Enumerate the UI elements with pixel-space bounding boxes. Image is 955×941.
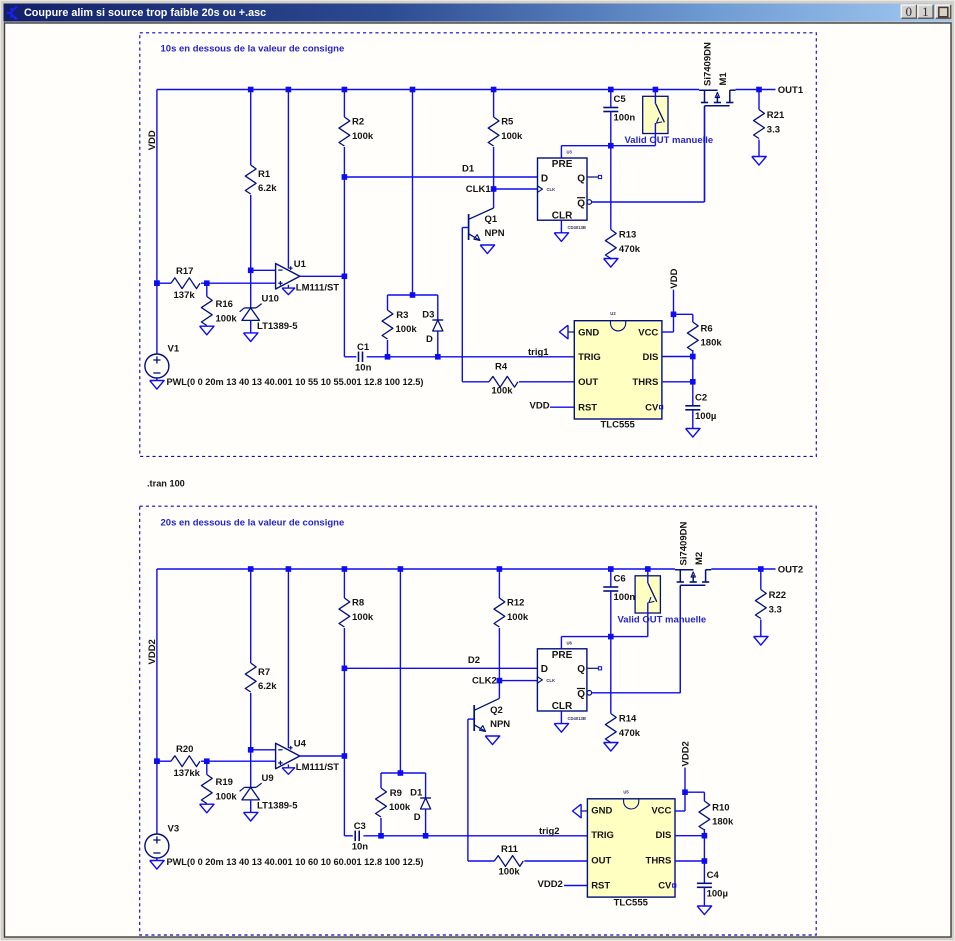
svg-text:U2: U2 <box>610 311 616 316</box>
svg-text:180k: 180k <box>712 817 734 828</box>
wire left rail vertical (VDD) <box>156 90 158 355</box>
ground flag opamp <box>282 288 295 295</box>
node junction CLK2 net <box>497 678 503 684</box>
wire RST <box>550 406 574 408</box>
svg-text:10n: 10n <box>352 842 369 853</box>
svg-text:OUT2: OUT2 <box>778 564 803 575</box>
wire 555 DIS <box>662 356 693 358</box>
voltage source V3 <box>156 833 158 835</box>
node junction R2-D1 <box>342 174 348 180</box>
floating pin marker Q <box>598 175 601 178</box>
node junction rail-R17 lower <box>154 280 160 286</box>
svg-text:D1: D1 <box>410 788 423 799</box>
svg-text:C1: C1 <box>357 342 370 353</box>
svg-text:Si7409DN: Si7409DN <box>679 522 690 566</box>
node junction rail-switch <box>653 87 659 93</box>
svg-text:U10: U10 <box>262 294 279 305</box>
wire VDD power flag <box>673 290 675 315</box>
node junction C3-R9 <box>378 833 384 839</box>
wire CLK1 to flip-flop <box>494 188 538 190</box>
resistor R13 470k (Qbar pulldown) <box>610 146 612 230</box>
svg-text:R14: R14 <box>619 714 637 725</box>
node junction OUT2-R22 <box>758 566 764 572</box>
ground flag Q1 emitter <box>480 245 494 254</box>
node junction rail-R17 <box>154 280 160 286</box>
svg-text:D2: D2 <box>468 655 480 666</box>
diode D3 <box>437 295 439 320</box>
capacitor C4 100µ <box>703 861 705 883</box>
voltage reference U10 LT1389-5 <box>244 307 256 309</box>
svg-text:THRS: THRS <box>632 377 658 388</box>
svg-text:OUT1: OUT1 <box>778 85 804 96</box>
node junction rail-C6 <box>608 566 614 572</box>
ground flag R22 <box>754 637 768 646</box>
svg-text:CLR: CLR <box>552 210 573 221</box>
flip-flop U3 CD4013B <box>538 158 588 220</box>
resistor R20 137kk (series) <box>157 760 171 762</box>
node junction rail-R3/D3 <box>410 87 416 93</box>
wire opamp output <box>300 755 345 757</box>
node junction rail-R5 <box>491 87 497 93</box>
svg-text:D3: D3 <box>422 310 434 321</box>
ground flag R19 <box>200 804 214 813</box>
wire base down to R11 <box>467 719 469 861</box>
transistor Q2 NPN <box>498 681 500 699</box>
svg-text:DIS: DIS <box>642 352 658 363</box>
ground flag R13 <box>604 259 618 268</box>
svg-text:Valid OUT manuelle: Valid OUT manuelle <box>618 615 707 626</box>
node junction PRE-C5 <box>608 143 614 149</box>
capacitor C2 100µ <box>692 382 694 406</box>
node junction DIS-R6 <box>690 354 696 360</box>
wire output junction down to C3 <box>343 756 345 836</box>
ground flag R14 <box>604 743 618 752</box>
floating pin marker CV <box>660 406 663 409</box>
svg-text:D: D <box>541 664 548 675</box>
svg-text:DIS: DIS <box>656 830 672 841</box>
svg-text:10s en dessous de la valeur de: 10s en dessous de la valeur de consigne <box>161 44 345 55</box>
wire 555 THRS <box>662 381 693 383</box>
wire plus input <box>207 760 276 762</box>
svg-text:VDD2: VDD2 <box>538 879 563 890</box>
wire 555 GND pin <box>568 331 574 333</box>
svg-text:100µ: 100µ <box>707 889 728 900</box>
svg-text:U1: U1 <box>294 259 307 270</box>
svg-text:C4: C4 <box>707 870 720 881</box>
svg-text:trig2: trig2 <box>539 826 560 837</box>
wire trig2 net <box>363 835 587 837</box>
node junction rail-R8 <box>342 566 348 572</box>
svg-text:20s en dessous de la valeur de: 20s en dessous de la valeur de consigne <box>161 518 345 529</box>
svg-text:NPN: NPN <box>485 228 505 239</box>
capacitor C5 100n <box>610 90 612 108</box>
wire flip-flop PRE <box>560 637 562 649</box>
svg-text:TLC555: TLC555 <box>601 420 636 431</box>
ground flag V3 <box>150 861 164 870</box>
svg-text:R20: R20 <box>176 744 193 755</box>
svg-text:CLK: CLK <box>547 187 556 192</box>
MOSFET M2 Si7409DN <box>675 569 694 571</box>
node junction D3-trig1 <box>435 354 441 360</box>
svg-text:Valid OUT manuelle: Valid OUT manuelle <box>625 135 714 146</box>
resistor R17 137k (series) <box>157 282 171 284</box>
wire Q2 base <box>468 718 474 720</box>
resistor R8 100k (pull-up) <box>343 569 345 598</box>
transistor Q1 NPN <box>493 189 495 208</box>
svg-text:10n: 10n <box>355 363 372 374</box>
wire minus input <box>251 269 276 271</box>
svg-text:R8: R8 <box>352 598 364 609</box>
svg-text:THRS: THRS <box>646 855 672 866</box>
voltage source V1 <box>156 353 158 355</box>
svg-text:PWL(0 0 20m 13 40 13 40.001 10: PWL(0 0 20m 13 40 13 40.001 10 60 10 60.… <box>167 857 424 867</box>
svg-text:3.3: 3.3 <box>769 605 782 616</box>
svg-text:U6: U6 <box>567 640 573 645</box>
svg-text:V1: V1 <box>168 344 180 355</box>
svg-text:R3: R3 <box>396 310 408 321</box>
node junction rail-R7 <box>248 566 254 572</box>
svg-text:CLR: CLR <box>552 701 573 712</box>
wire rail down to loop <box>412 90 414 296</box>
wire R8 down to output junction <box>343 668 345 756</box>
node junction THRS-C4 <box>702 858 708 864</box>
wire VDD rail block1 <box>157 89 699 91</box>
svg-text:RST: RST <box>591 881 610 892</box>
timer U2 TLC555 <box>574 321 662 419</box>
ground flag CLR <box>554 724 568 733</box>
svg-text:C6: C6 <box>614 574 626 585</box>
wire opamp V+ supply <box>287 569 289 748</box>
resistor R4 100k (to 555 OUT) <box>462 381 489 383</box>
svg-text:GND: GND <box>591 805 612 816</box>
svg-text:Q1: Q1 <box>485 214 498 225</box>
svg-text:C5: C5 <box>614 94 627 105</box>
wire CLK2 to flip-flop <box>499 680 537 682</box>
flip-flop Qbar bubble <box>587 691 592 696</box>
switch Valid OUT manuelle <box>635 576 660 613</box>
svg-text:CD4013B: CD4013B <box>568 716 586 721</box>
app icon transistor <box>7 7 17 19</box>
ground flag C2 <box>686 429 700 438</box>
dashed box block 1 <box>140 33 817 457</box>
wire trig1 net <box>367 356 575 358</box>
svg-text:6.2k: 6.2k <box>258 681 277 692</box>
wire RST <box>564 885 587 887</box>
svg-text:LM111/ST: LM111/ST <box>296 762 339 773</box>
svg-text:0: 0 <box>906 4 913 19</box>
svg-text:LT1389-5: LT1389-5 <box>257 801 298 812</box>
op-amp U4 LM111/ST <box>276 743 300 769</box>
node junction R7-minus <box>248 747 254 753</box>
resistor R7 6.2k <box>250 569 252 663</box>
wire Q1 base <box>462 227 468 229</box>
svg-text:VDD: VDD <box>530 401 550 412</box>
capacitor C3 10n <box>354 831 356 842</box>
svg-text:100k: 100k <box>507 612 529 623</box>
svg-text:VDD: VDD <box>669 268 680 288</box>
wire flip-flop PRE <box>560 146 562 158</box>
svg-text:R22: R22 <box>769 590 786 601</box>
node junction rail-R9/D1 <box>398 566 404 572</box>
resistor R12 100k (pull-up 2) <box>498 569 500 598</box>
ground flag Q2 emitter <box>485 736 499 745</box>
ground flag C4 <box>697 906 711 915</box>
svg-text:137kk: 137kk <box>174 768 201 779</box>
svg-text:M1: M1 <box>718 72 729 86</box>
MOSFET M1 Si7409DN <box>699 89 718 91</box>
node junction rail-R2 <box>342 87 348 93</box>
svg-text:Si7409DN: Si7409DN <box>703 42 714 86</box>
wire minus input <box>251 749 276 751</box>
svg-text:100n: 100n <box>614 113 636 124</box>
wire plus input <box>207 282 276 284</box>
node junction THRS-C2 <box>690 379 696 385</box>
svg-text:VCC: VCC <box>651 805 671 816</box>
svg-text:RST: RST <box>578 403 597 414</box>
node junction DIS-R10 <box>702 833 708 839</box>
resistor R10 180k <box>685 791 704 793</box>
resistor R21 3.3 (load) <box>758 90 760 110</box>
svg-text:6.2k: 6.2k <box>258 183 277 194</box>
node junction rail-C5 <box>608 87 614 93</box>
svg-text:R16: R16 <box>216 299 233 310</box>
svg-text:1: 1 <box>922 4 929 19</box>
window button minimize <box>901 4 917 19</box>
svg-text:100k: 100k <box>491 386 513 397</box>
svg-text:GND: GND <box>578 327 599 338</box>
dashed box block 2 <box>140 506 817 935</box>
ground flag V1 <box>150 381 164 390</box>
svg-text:V3: V3 <box>168 824 180 835</box>
wire net D2 to flip-flop D <box>344 667 537 669</box>
ground flag U10 <box>244 333 258 342</box>
svg-text:Q2: Q2 <box>490 705 503 716</box>
svg-text:R9: R9 <box>390 788 402 799</box>
node junction R1-minus <box>248 268 254 274</box>
node junction D1-trig2 <box>423 833 429 839</box>
ground flag opamp <box>282 768 295 775</box>
node junction R17-R16 <box>204 280 210 286</box>
timer U5 TLC555 <box>587 799 675 897</box>
wire to C1 left plate <box>344 356 356 358</box>
svg-text:Coupure alim si source trop fa: Coupure alim si source trop faible 20s o… <box>24 7 266 19</box>
capacitor C6 100n <box>610 569 612 587</box>
svg-text:470k: 470k <box>619 728 641 739</box>
window button close <box>935 5 951 19</box>
svg-text:100k: 100k <box>501 131 523 142</box>
wire R2 down to output junction <box>343 177 345 276</box>
svg-text:U4: U4 <box>294 739 307 750</box>
wire DIS to THRS <box>692 357 694 382</box>
wire opamp output <box>300 275 345 277</box>
node junction rail-R20 lower <box>154 758 160 764</box>
node junction rail-R12 <box>497 566 503 572</box>
resistor R19 100k <box>206 761 208 774</box>
node junction output-R2 <box>342 274 348 280</box>
wire drain to OUT2 <box>711 568 775 570</box>
ground flag 555 GND (rotated) <box>573 804 582 818</box>
node junction rail-opamp V+ <box>286 566 292 572</box>
ground flag 555 GND (rotated) <box>559 325 568 339</box>
wire 555 THRS <box>675 860 704 862</box>
svg-text:R10: R10 <box>712 803 729 814</box>
svg-text:D: D <box>414 812 421 823</box>
svg-text:100k: 100k <box>352 131 374 142</box>
svg-text:PWL(0 0 20m 13 40 13 40.001 10: PWL(0 0 20m 13 40 13 40.001 10 55 10 55.… <box>167 377 424 387</box>
node junction CLK1 net <box>491 186 497 192</box>
svg-text:Q: Q <box>577 198 585 209</box>
resistor R3 100k (feedback) <box>387 295 389 310</box>
resistor R14 470k (Qbar pulldown) <box>610 637 612 714</box>
window button maximize <box>918 4 934 19</box>
svg-text:C3: C3 <box>354 821 366 832</box>
svg-text:100k: 100k <box>216 314 238 325</box>
wire left rail vertical (VDD2) <box>156 569 158 834</box>
voltage reference U9 LT1389-5 <box>244 786 256 788</box>
svg-text:CLK: CLK <box>546 678 555 683</box>
wire net D1 to flip-flop D <box>344 176 537 178</box>
resistor R22 3.3 (load) <box>760 569 762 590</box>
wire base down to R4 <box>461 228 463 382</box>
floating pin marker Q <box>598 667 601 670</box>
svg-text:U5: U5 <box>623 789 629 794</box>
svg-text:180k: 180k <box>701 338 723 349</box>
node junction VCC-VDD2 flag <box>682 789 688 795</box>
ground flag CLR <box>554 233 568 242</box>
wire VDD2 power flag <box>684 768 686 793</box>
svg-text:R13: R13 <box>619 230 636 241</box>
wire opamp V- to ground <box>287 765 289 768</box>
svg-text:D1: D1 <box>462 164 475 175</box>
svg-text:LT1389-5: LT1389-5 <box>257 321 298 332</box>
wire Qbar to gate <box>592 692 681 694</box>
svg-text:R1: R1 <box>258 169 271 180</box>
svg-text:100µ: 100µ <box>695 411 716 422</box>
node junction R8-D2 <box>342 666 348 672</box>
svg-text:470k: 470k <box>619 244 641 255</box>
node junction rail-R1 <box>248 87 254 93</box>
svg-text:U3: U3 <box>567 150 573 155</box>
svg-text:VDD2: VDD2 <box>147 639 158 664</box>
svg-text:CV: CV <box>658 881 672 892</box>
svg-text:.tran 100: .tran 100 <box>147 479 185 489</box>
resistor R2 100k (pull-up) <box>343 90 345 118</box>
ground flag U9 <box>244 812 258 821</box>
svg-text:R11: R11 <box>501 844 519 855</box>
svg-text:100k: 100k <box>396 324 418 335</box>
node junction rail-opamp V+ <box>286 87 292 93</box>
wire drain to OUT1 <box>736 89 776 91</box>
node junction R20-R19 <box>204 758 210 764</box>
resistor R5 100k (pull-up 2) <box>493 90 495 118</box>
svg-text:100k: 100k <box>216 792 238 803</box>
svg-text:TRIG: TRIG <box>591 830 614 841</box>
diode D1 <box>425 773 427 798</box>
svg-text:CV: CV <box>645 403 659 414</box>
wire VDD rail block2 <box>157 568 675 570</box>
svg-text:100n: 100n <box>614 592 636 603</box>
wire R3/D3 top loop <box>388 294 438 296</box>
svg-text:LM111/ST: LM111/ST <box>296 283 339 294</box>
node junction output-R8 <box>342 753 348 759</box>
svg-text:Q: Q <box>577 689 585 700</box>
node junction rail-switch <box>645 566 651 572</box>
op-amp U1 LM111/ST <box>276 264 300 290</box>
wire 555 GND pin <box>581 810 587 812</box>
svg-text:Q: Q <box>577 173 585 184</box>
node junction VCC-VDD flag <box>671 312 677 318</box>
svg-text:R7: R7 <box>258 667 270 678</box>
svg-text:trig1: trig1 <box>528 347 549 358</box>
svg-text:100k: 100k <box>389 802 411 813</box>
wire DIS to THRS <box>703 836 705 861</box>
resistor R1 6.2k <box>250 90 252 166</box>
wire R9/D1 top loop <box>381 772 426 774</box>
svg-text:R5: R5 <box>501 117 514 128</box>
svg-text:R19: R19 <box>216 777 233 788</box>
wire rail down to loop <box>399 569 401 773</box>
wire 555 VCC <box>675 810 685 812</box>
svg-text:R21: R21 <box>767 110 785 121</box>
ground flag R16 <box>200 326 214 335</box>
svg-text:M2: M2 <box>694 552 705 565</box>
wire flip-flop Q output stub <box>587 667 598 669</box>
svg-text:NPN: NPN <box>490 719 510 730</box>
wire opamp V- to ground <box>287 285 289 288</box>
node junction rail-R20 <box>154 758 160 764</box>
svg-text:C2: C2 <box>695 393 707 404</box>
wire Qbar to gate <box>592 201 705 203</box>
svg-text:Q: Q <box>577 664 585 675</box>
node junction PRE-C6 <box>608 634 614 640</box>
svg-text:100k: 100k <box>499 866 521 877</box>
wire R1 to U10 <box>250 270 252 308</box>
wire output junction down to C1 <box>343 276 345 357</box>
wire flip-flop CLR <box>560 711 562 724</box>
resistor R11 100k (to 555 OUT) <box>468 860 494 862</box>
svg-text:R4: R4 <box>495 362 508 373</box>
wire opamp V+ supply <box>287 90 289 269</box>
svg-text:D: D <box>426 334 433 345</box>
node junction top loop <box>410 292 416 298</box>
node junction C1-R3 <box>385 354 391 360</box>
svg-text:100k: 100k <box>352 612 374 623</box>
svg-text:3.3: 3.3 <box>767 125 780 136</box>
wire flip-flop CLR <box>560 220 562 233</box>
switch Valid OUT manuelle <box>643 96 668 133</box>
svg-text:R2: R2 <box>352 117 364 128</box>
resistor R9 100k (feedback) <box>380 773 382 788</box>
svg-text:CLK2: CLK2 <box>472 676 497 687</box>
node junction OUT1-R21 <box>756 87 762 93</box>
wire flip-flop Q output stub <box>587 176 598 178</box>
resistor R6 180k <box>674 313 693 315</box>
wire 555 VCC <box>662 331 674 333</box>
svg-text:OUT: OUT <box>591 855 611 866</box>
flip-flop Qbar bubble <box>587 200 592 205</box>
wire 555 DIS <box>675 835 704 837</box>
ground flag R21 <box>752 157 766 166</box>
svg-text:VCC: VCC <box>638 327 658 338</box>
svg-text:R17: R17 <box>176 266 193 277</box>
svg-text:TLC555: TLC555 <box>614 898 649 909</box>
svg-text:PRE: PRE <box>552 650 573 661</box>
svg-text:CLK1: CLK1 <box>466 184 492 195</box>
svg-text:OUT: OUT <box>578 377 598 388</box>
svg-text:R6: R6 <box>701 324 713 335</box>
svg-text:TRIG: TRIG <box>578 352 601 363</box>
node junction top loop <box>398 770 404 776</box>
